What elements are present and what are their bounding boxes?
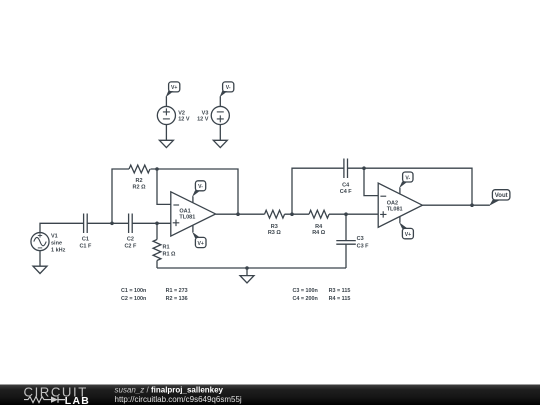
op-amp U1 OA1 triangle — [171, 192, 216, 236]
svg-text:V-: V- — [198, 184, 203, 190]
svg-text:R1: R1 — [163, 245, 170, 251]
op-amp OA1 minus mark — [173, 204, 179, 206]
power stub OA1 V- — [192, 196, 194, 203]
voltage source V1 — [31, 233, 49, 251]
svg-text:sine: sine — [51, 241, 62, 247]
svg-text:12 V: 12 V — [197, 117, 209, 123]
power stub OA2 V- — [399, 188, 401, 194]
svg-text:Vout: Vout — [495, 193, 508, 199]
voltage source V3 — [211, 106, 229, 124]
svg-text:C1: C1 — [82, 236, 89, 242]
op-amp OA2 plus mark — [380, 211, 386, 217]
capacitor C3 — [336, 241, 356, 245]
svg-text:V3: V3 — [202, 111, 209, 117]
wire V1 bottom to ground — [39, 251, 41, 267]
flag tail V3 V- — [220, 91, 228, 97]
svg-text:R4: R4 — [315, 224, 323, 230]
svg-text:LAB: LAB — [65, 396, 90, 405]
capacitor C2 — [129, 214, 133, 234]
node R4/C3 junction — [344, 212, 348, 216]
wire V2 top stub — [165, 97, 167, 107]
op-amp OA1 plus mark — [173, 220, 180, 227]
wire V3 top stub — [219, 97, 221, 107]
wire C3 bottom to rail — [345, 244, 347, 268]
flag tail Vout — [489, 200, 500, 206]
svg-text:R3: R3 — [271, 224, 278, 230]
svg-text:C1 = 100n: C1 = 100n — [121, 288, 146, 294]
resistor R2 — [129, 165, 150, 173]
wire OA1 inverting input — [157, 169, 171, 204]
resistor R1 — [153, 240, 161, 261]
ground below V2 — [159, 140, 173, 147]
svg-text:C4 = 200n: C4 = 200n — [293, 296, 318, 302]
flag tail V2 V+ — [166, 91, 174, 97]
svg-text:V+: V+ — [198, 241, 204, 247]
CircuitLab logo waveform — [24, 397, 51, 403]
wire V1 top to C1 — [40, 223, 84, 232]
ground below V1 — [33, 266, 47, 273]
wire R1 to bottom rail — [156, 261, 158, 269]
svg-text:C4: C4 — [342, 183, 350, 189]
svg-text:C1 F: C1 F — [79, 243, 92, 249]
wire node A up to R2 — [112, 169, 129, 223]
wire C2 to OA1 + input — [132, 222, 171, 224]
power stub OA1 V+ — [192, 225, 194, 232]
svg-text:R4 Ω: R4 Ω — [312, 230, 326, 236]
svg-text:V2: V2 — [178, 111, 185, 117]
svg-text:R2 = 136: R2 = 136 — [166, 296, 188, 302]
ground on bottom rail — [240, 276, 254, 283]
svg-text:C2: C2 — [127, 236, 134, 242]
svg-text:OA1: OA1 — [179, 208, 190, 214]
svg-text:R1 = 273: R1 = 273 — [166, 288, 188, 294]
node top feedback junction — [155, 167, 159, 171]
svg-text:12 V: 12 V — [178, 117, 190, 123]
voltage source V2 — [157, 106, 175, 124]
wire C1 to C2 — [87, 222, 128, 224]
wire ground stem — [246, 268, 248, 276]
node B junction C2/R1 — [155, 222, 159, 226]
node ground tap junction — [245, 266, 249, 270]
power stub OA2 V+ — [399, 216, 401, 223]
wire OA2 inverting input — [364, 168, 378, 195]
wire C4 to feedback corner — [348, 168, 473, 205]
net flag Vout — [492, 190, 510, 200]
net flag V+ — [169, 82, 180, 92]
svg-text:C2 = 100n: C2 = 100n — [121, 296, 146, 302]
svg-text:R2: R2 — [135, 178, 142, 184]
node C4/minus junction — [362, 166, 366, 170]
svg-text:V+: V+ — [171, 85, 177, 91]
svg-text:C2 F: C2 F — [124, 243, 137, 249]
op-amp OA2 minus mark — [380, 195, 386, 197]
svg-text:R3 Ω: R3 Ω — [268, 230, 282, 236]
capacitor C4 — [344, 159, 348, 179]
flag tail OA2 V+ — [399, 222, 407, 228]
svg-text:R2 Ω: R2 Ω — [133, 184, 147, 190]
svg-text:TL081: TL081 — [179, 215, 195, 221]
resistor R3 — [265, 210, 285, 218]
node A junction C1/C2/R2 — [110, 222, 114, 226]
flag tail OA1 V+ — [192, 232, 200, 238]
wire junction up to C4 — [292, 168, 344, 214]
op-amp U2 OA2 triangle — [378, 183, 422, 227]
svg-text:susan_z / finalproj_sallenkey: susan_z / finalproj_sallenkey — [115, 385, 224, 394]
svg-text:R1 Ω: R1 Ω — [163, 252, 177, 258]
svg-text:C4 F: C4 F — [340, 189, 353, 195]
svg-text:V-: V- — [226, 85, 231, 91]
wire V2 to ground — [165, 125, 167, 141]
wire V3 to ground — [219, 125, 221, 141]
wire junction down to C3 — [345, 214, 347, 240]
node R3/R4/C4 junction — [290, 212, 294, 216]
svg-text:R3 = 115: R3 = 115 — [329, 288, 351, 294]
net flag OA1 V+ — [195, 237, 206, 247]
wire node B to R1 — [156, 223, 158, 239]
net flag OA2 V- — [403, 172, 413, 182]
wire OA2 output — [422, 204, 489, 206]
wire R4 to OA2 + input — [329, 213, 378, 215]
resistor R4 — [309, 210, 329, 218]
svg-text:1 kHz: 1 kHz — [51, 248, 66, 254]
wire R2 to feedback corner — [151, 169, 239, 214]
svg-text:http://circuitlab.com/c9s649q6: http://circuitlab.com/c9s649q6sm55j — [115, 395, 242, 404]
ground below V3 — [213, 140, 227, 147]
svg-text:C3 = 100n: C3 = 100n — [293, 288, 318, 294]
svg-text:V+: V+ — [405, 232, 411, 238]
svg-text:V-: V- — [405, 175, 410, 181]
footer bar — [0, 385, 540, 405]
node OA2 output junction — [470, 203, 474, 207]
capacitor C1 — [84, 214, 88, 234]
flag tail OA2 V- — [399, 182, 407, 189]
svg-text:TL081: TL081 — [387, 206, 403, 212]
svg-text:C3: C3 — [357, 236, 364, 242]
flag tail OA1 V- — [192, 190, 200, 197]
svg-text:V1: V1 — [51, 234, 58, 240]
wire OA1 output — [216, 213, 265, 215]
svg-text:C3 F: C3 F — [357, 243, 370, 249]
node OA1 output junction — [236, 212, 240, 216]
svg-text:R4 = 115: R4 = 115 — [329, 296, 351, 302]
net flag OA2 V+ — [402, 228, 413, 238]
wire bottom ground rail — [157, 267, 346, 269]
net flag V- — [223, 82, 234, 92]
net flag OA1 V- — [195, 181, 205, 191]
CircuitLab logo diode — [51, 396, 58, 402]
wire R3 to R4 — [285, 213, 310, 215]
